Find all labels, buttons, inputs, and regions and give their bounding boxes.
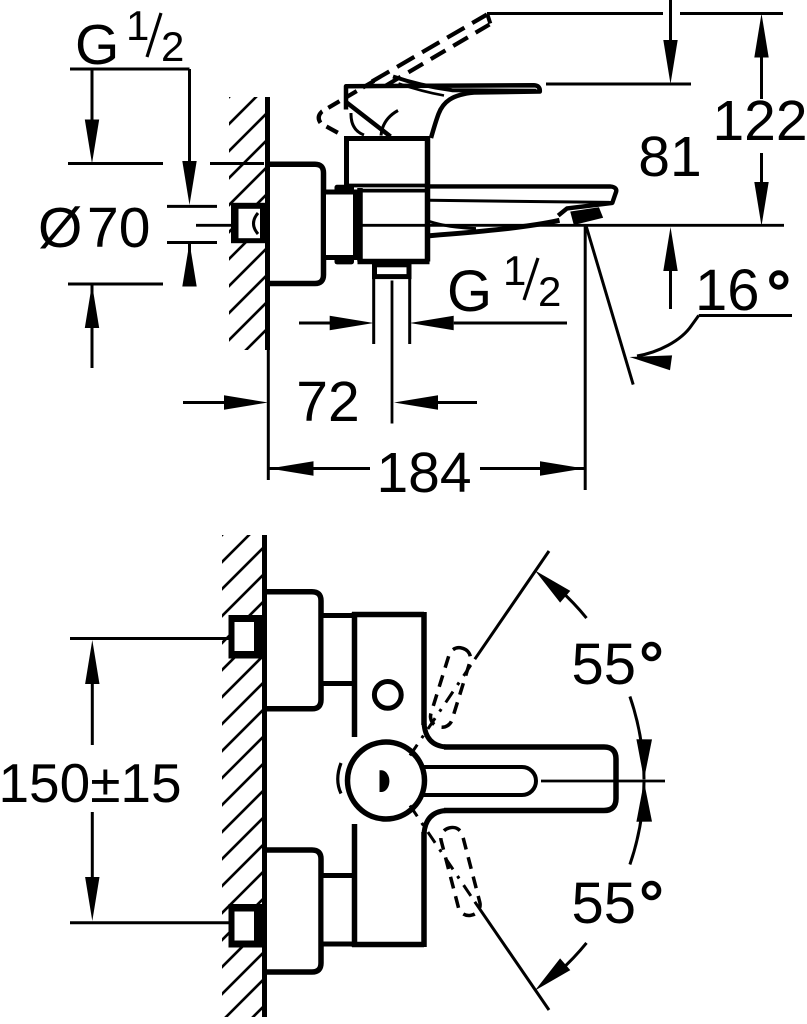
svg-text:184: 184	[376, 441, 471, 505]
svg-text:55: 55	[572, 871, 637, 936]
svg-text:150±15: 150±15	[0, 752, 182, 814]
svg-text:Ø: Ø	[38, 196, 82, 260]
svg-text:72: 72	[296, 370, 359, 434]
svg-text:2: 2	[538, 268, 561, 315]
svg-text:81: 81	[638, 125, 701, 189]
svg-text:70: 70	[87, 196, 150, 260]
svg-text:122: 122	[712, 89, 807, 153]
svg-text:16: 16	[695, 258, 760, 323]
svg-text:55: 55	[572, 632, 637, 697]
svg-text:G: G	[75, 13, 119, 77]
svg-text:2: 2	[161, 23, 184, 70]
svg-text:G: G	[447, 259, 492, 324]
svg-text:1: 1	[126, 2, 149, 49]
svg-text:1: 1	[503, 247, 526, 294]
